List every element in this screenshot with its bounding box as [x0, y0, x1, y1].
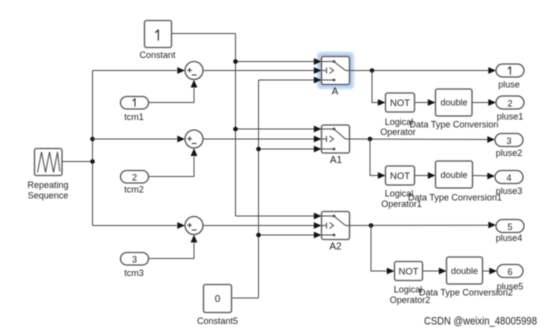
svg-text:A: A	[332, 87, 339, 98]
wire bus to switch A2 bottom input	[259, 234, 315, 236]
svg-text:6: 6	[507, 267, 512, 277]
outport pluse2 (3)	[495, 134, 523, 147]
wire branch down to Logical Operator2	[371, 226, 387, 272]
junction node branch to Add2	[90, 137, 95, 142]
constant block Constant value 1	[145, 21, 172, 48]
wire switch A1 output to pluse2	[350, 138, 488, 141]
wire bus to switch A2 top input	[236, 215, 315, 217]
svg-text:Repeating: Repeating	[27, 180, 68, 190]
wire Repeating Sequence output	[62, 161, 93, 163]
wire bus to switch A top input	[236, 61, 315, 63]
wire NOT1 to double1	[415, 175, 429, 177]
wire bus to switch A1 bottom input	[259, 148, 315, 150]
svg-text:pluse3: pluse3	[496, 186, 523, 196]
svg-text:Sequence: Sequence	[28, 191, 69, 201]
data type conversion double (row 1)	[436, 89, 473, 116]
svg-text:NOT: NOT	[390, 171, 410, 182]
switch block A1	[322, 125, 350, 153]
junction node at A2 bottom branch	[256, 233, 261, 238]
switch block A	[322, 57, 350, 85]
svg-text:2: 2	[132, 173, 137, 183]
svg-text:pluse1: pluse1	[497, 112, 524, 122]
svg-text:A2: A2	[329, 242, 342, 253]
svg-text:pluse5: pluse5	[497, 282, 524, 292]
wire sum1 to switch A middle input	[203, 70, 314, 72]
svg-text:Data Type Conversion1: Data Type Conversion1	[408, 193, 502, 203]
wire tcm3 to sum3 bottom input	[149, 243, 194, 259]
wire double1 to pluse3	[473, 175, 488, 177]
svg-text:3: 3	[132, 255, 137, 265]
wire branch down to Logical Operator1	[370, 139, 378, 176]
wire tcm2 to sum2 bottom input	[149, 157, 195, 177]
inport tcm1	[121, 97, 149, 110]
svg-text:0: 0	[215, 294, 221, 305]
wire Constant output to bus	[172, 33, 236, 35]
inport tcm3	[121, 253, 149, 266]
constant block Constant5 value 0	[204, 285, 232, 313]
data type conversion double2 (row 3)	[447, 257, 483, 284]
wire constant-1 vertical bus	[235, 34, 237, 217]
junction node A2 output branch	[369, 223, 374, 228]
svg-text:4: 4	[506, 173, 511, 183]
switch block A2	[322, 212, 350, 240]
wire tcm1 to sum1 bottom input	[149, 88, 194, 103]
junction node RS joins bus	[90, 159, 95, 164]
wire bus to switch A1 top input	[236, 128, 315, 130]
wire bus to switch A bottom input	[259, 79, 315, 81]
svg-text:pluse4: pluse4	[496, 233, 523, 243]
wire sum2 to switch A1 middle input	[203, 138, 314, 140]
svg-text:Data Type Conversion: Data Type Conversion	[410, 120, 499, 130]
svg-text:CSDN @weixin_48005998: CSDN @weixin_48005998	[424, 316, 537, 328]
wire bus to sum3 left input	[93, 225, 178, 227]
svg-text:tcm2: tcm2	[124, 185, 144, 195]
outport pluse3 (4)	[495, 171, 523, 184]
svg-text:Constant5: Constant5	[197, 316, 238, 326]
svg-text:NOT: NOT	[390, 98, 410, 109]
svg-text:A1: A1	[330, 155, 343, 166]
outport pluse (1)	[496, 64, 524, 77]
svg-text:5: 5	[507, 222, 512, 232]
svg-text:double: double	[440, 98, 467, 108]
logical operator NOT2 (row 3)	[395, 262, 423, 281]
wire bus to sum2 left input	[93, 138, 178, 140]
svg-text:tcm1: tcm1	[124, 112, 144, 122]
sum block Add2 (row 3)	[185, 217, 203, 235]
junction node A1 output branch	[368, 137, 373, 142]
wire switch A output to pluse	[350, 70, 489, 72]
junction node at A1 bottom branch	[256, 147, 261, 152]
outport pluse5 (6)	[497, 265, 523, 278]
logical operator NOT1 (row 2)	[386, 166, 415, 185]
logical operator NOT (row 1)	[386, 93, 415, 112]
wire bus to sum1 left input	[93, 70, 178, 72]
selection halo around switch A	[316, 51, 355, 90]
wire NOT to double	[415, 102, 429, 104]
svg-text:pluse2: pluse2	[496, 148, 523, 158]
data type conversion double1 (row 2)	[436, 161, 473, 188]
outport pluse4 (5)	[496, 220, 524, 233]
wire repeating-sequence vertical bus	[92, 71, 94, 226]
junction node at A1 top branch	[233, 127, 238, 132]
inport tcm2	[121, 171, 149, 184]
svg-text:2: 2	[507, 99, 512, 109]
wire branch down to Logical Operator	[372, 71, 378, 103]
svg-text:Constant: Constant	[139, 50, 176, 60]
Repeating Sequence source block	[35, 149, 63, 176]
junction node A output branch	[370, 68, 375, 73]
sum block Add (row 1)	[185, 62, 203, 80]
wire NOT2 to double2	[423, 270, 440, 272]
wire Constant5 output to bus	[233, 297, 259, 299]
svg-text:NOT: NOT	[398, 266, 418, 277]
svg-text:3: 3	[506, 136, 511, 146]
wire constant-0 vertical bus	[258, 80, 260, 298]
junction node at A top branch	[233, 59, 238, 64]
sum block Add1 (row 2)	[185, 130, 203, 148]
wire double to pluse1	[472, 102, 489, 104]
wire sum3 to switch A2 middle input	[203, 225, 314, 227]
svg-text:tcm3: tcm3	[124, 268, 144, 278]
svg-text:double: double	[440, 170, 467, 180]
svg-text:double: double	[451, 266, 478, 276]
svg-text:pluse: pluse	[498, 80, 520, 90]
wire switch A2 output to pluse4	[350, 224, 489, 226]
svg-text:Logical: Logical	[394, 285, 423, 295]
outport pluse1 (2)	[496, 96, 524, 109]
wire double2 to pluse5	[483, 270, 490, 272]
